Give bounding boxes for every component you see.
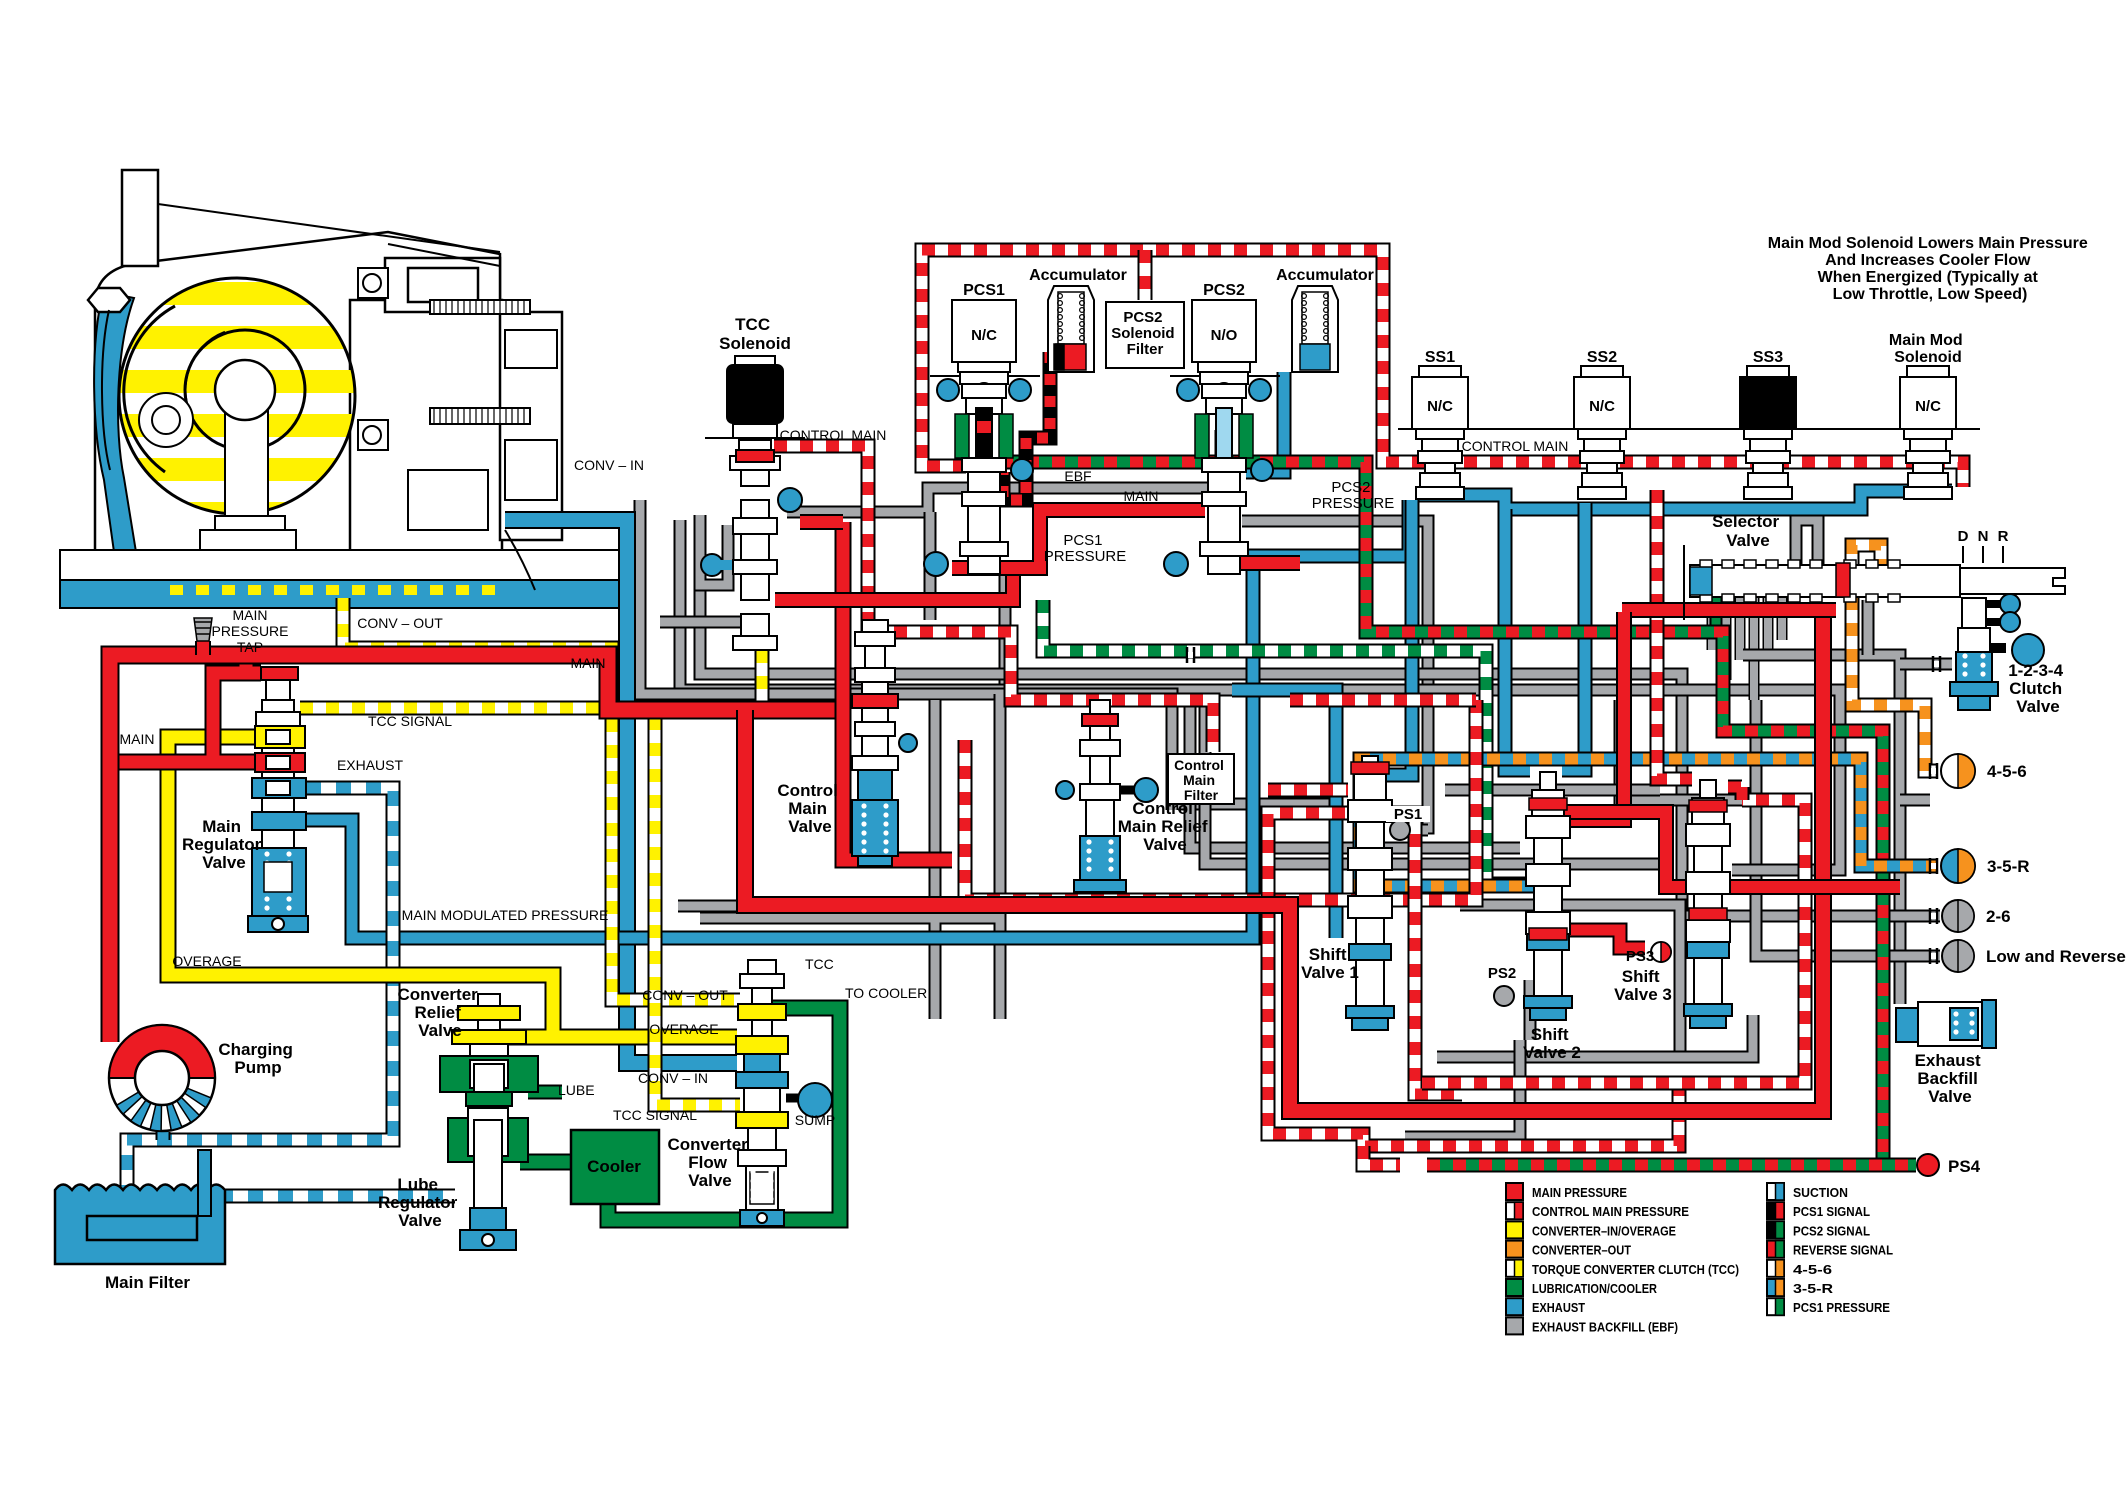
svg-text:CONTROL MAIN: CONTROL MAIN (780, 427, 887, 443)
valve Shift Valve 1 (1346, 756, 1394, 1030)
wire gray low-rev (1756, 700, 1940, 956)
svg-text:SS3: SS3 (1753, 349, 1783, 366)
pump hub left (139, 393, 193, 447)
svg-text:N/C: N/C (971, 327, 997, 344)
wire SS2 down (1562, 503, 1585, 770)
trans inner details (215, 360, 275, 420)
valve converter flow (736, 960, 832, 1226)
legend row EXHAUST BACKFILL (EBF) (1506, 1317, 1523, 1334)
wire gray to clutch valve (1900, 658, 1952, 671)
wire gray sv3 web2 (1732, 700, 1840, 870)
legend row MAIN PRESSURE (1506, 1183, 1523, 1200)
control main filter box (1168, 754, 1234, 804)
wire main to control valve (843, 522, 952, 860)
svg-text:N/C: N/C (1589, 398, 1615, 415)
wire gray sv2 drop (1524, 980, 1537, 1040)
svg-text:OVERAGE: OVERAGE (649, 1021, 718, 1037)
svg-text:TCC SIGNAL: TCC SIGNAL (368, 713, 452, 729)
svg-text:MAIN: MAIN (1124, 488, 1159, 504)
wire sv1 dashed stub (1268, 783, 1348, 798)
solenoid TCC (701, 356, 805, 650)
valve lube regulator (448, 1108, 528, 1250)
svg-text:MAIN PRESSURE: MAIN PRESSURE (1532, 1185, 1627, 1200)
wire gray tcc U (660, 515, 770, 622)
svg-text:1-2-3-4 Clutch Valve: 1-2-3-4 Clutch Valve (2008, 661, 2068, 716)
wire PCS2 pressure gray (1242, 521, 1428, 828)
svg-text:N/C: N/C (1755, 398, 1781, 415)
svg-text:PS2: PS2 (1488, 965, 1516, 982)
svg-text:CONVERTER–OUT: CONVERTER–OUT (1532, 1243, 1631, 1258)
wire gray mid 1 (1178, 798, 1340, 811)
wire reverse signal (1000, 462, 1883, 1165)
wire gray sv3 web1 (1620, 700, 1760, 800)
transmission cross-section housing (95, 170, 562, 552)
svg-text:CONV – OUT: CONV – OUT (642, 987, 728, 1003)
svg-text:PCS2: PCS2 (1203, 282, 1245, 299)
wire gray mid 2 (1190, 694, 1520, 848)
svg-text:TO COOLER: TO COOLER (845, 985, 927, 1001)
wire accumulator2 drop (1246, 372, 1284, 472)
cooler (571, 1130, 659, 1204)
solenoid SS3 (1740, 366, 1796, 499)
svg-text:SS2: SS2 (1587, 349, 1617, 366)
solenoid SS2 (1574, 366, 1630, 499)
wire TCC signal dashed (300, 708, 740, 1105)
legend row EXHAUST (1506, 1298, 1523, 1315)
svg-text:TCC SIGNAL: TCC SIGNAL (613, 1107, 697, 1123)
blue channel left side (94, 292, 136, 552)
valve control main (852, 620, 898, 866)
wire PCS1 pressure line (1043, 600, 1528, 884)
svg-text:EXHAUST: EXHAUST (337, 757, 404, 773)
wire ps loop lower (1363, 1146, 1400, 1165)
wire main branch to loop (745, 612, 1823, 1111)
svg-text:4-5-6: 4-5-6 (1793, 1262, 1832, 1277)
svg-text:N/O: N/O (1211, 327, 1238, 344)
legend row CONTROL MAIN PRESSURE (1506, 1202, 1523, 1219)
wire control main valve loop (868, 632, 1213, 752)
wire selector red rail (1622, 602, 1836, 618)
svg-text:3-5-R: 3-5-R (1987, 857, 2030, 876)
svg-text:CONTROL MAIN PRESSURE: CONTROL MAIN PRESSURE (1532, 1204, 1689, 1219)
svg-text:D: D (1958, 528, 1969, 545)
valve control main relief (1074, 700, 1158, 892)
svg-text:SUMP: SUMP (795, 1112, 835, 1128)
wire exhaust dashed main reg (127, 788, 393, 1188)
legend row SUCTION (1767, 1183, 1784, 1200)
PS3 sensor (1651, 942, 1671, 962)
svg-text:PS1: PS1 (1394, 806, 1422, 823)
wire sv3 dashed drop (1657, 490, 1692, 779)
bottom blue channel (60, 580, 635, 608)
svg-text:2-6: 2-6 (1986, 907, 2011, 926)
wire 4-5-6 selector U (1852, 545, 1881, 580)
wire sv3 small valve out (1728, 787, 1742, 800)
PS2 sensor (1494, 986, 1514, 1006)
svg-text:Shift Valve 2: Shift Valve 2 (1523, 1025, 1581, 1062)
valve Shift Valve 2 (1524, 772, 1572, 1020)
wire gray clutch feed (1868, 600, 1930, 800)
legend row PCS1 PRESSURE (1767, 1298, 1784, 1315)
legend row 4-5-6 (1767, 1260, 1784, 1277)
svg-text:CONVERTER–IN/OVERAGE: CONVERTER–IN/OVERAGE (1532, 1223, 1676, 1238)
wire relief box top (1290, 693, 1476, 708)
clutch LowRev (1942, 940, 1974, 972)
wire shift valve loop inner (1422, 800, 1805, 1083)
valve Shift Valve 3 (1684, 780, 1732, 1028)
svg-text:Cooler: Cooler (587, 1157, 641, 1176)
svg-text:PCS1 SIGNAL: PCS1 SIGNAL (1793, 1204, 1870, 1219)
valve exhaust backfill (1896, 1000, 1996, 1048)
svg-text:Shift Valve 1: Shift Valve 1 (1301, 945, 1359, 982)
main filter tank (55, 1150, 225, 1264)
svg-text:4-5-6: 4-5-6 (1987, 762, 2027, 781)
wire solenoid exhaust rail (1418, 491, 1952, 509)
wire shift valve loop outer (1268, 905, 1679, 1146)
clutch 2-6 (1942, 900, 1974, 932)
wire gray selector U (1796, 520, 1818, 597)
wire tcc valve red stub (775, 522, 1013, 600)
solenoid PCS1 (924, 300, 1040, 576)
svg-text:TAP: TAP (237, 639, 263, 655)
svg-text:Shift Valve 3: Shift Valve 3 (1614, 967, 1672, 1004)
svg-text:PCS1: PCS1 (963, 282, 1005, 299)
wire sv2 red stub (1548, 930, 1645, 948)
svg-text:CONV – IN: CONV – IN (638, 1070, 708, 1086)
svg-text:N/C: N/C (1427, 398, 1453, 415)
legend row REVERSE SIGNAL (1767, 1241, 1784, 1258)
wire EBF rail A (787, 488, 1208, 512)
legend row PCS2 SIGNAL (1767, 1221, 1784, 1238)
svg-text:SUCTION: SUCTION (1793, 1185, 1848, 1200)
svg-text:R: R (1998, 528, 2009, 545)
housing bolts (88, 288, 130, 312)
wire main reg red feeds (110, 655, 261, 762)
wire EBF long rail 3 (640, 500, 1172, 810)
wire main pcs1-pcs2 (952, 510, 1205, 568)
wire shift valve loop top (1268, 813, 1462, 1094)
svg-text:PRESSURE: PRESSURE (211, 623, 288, 639)
svg-text:LUBE: LUBE (558, 1082, 595, 1098)
svg-text:PCS2 SIGNAL: PCS2 SIGNAL (1793, 1223, 1870, 1238)
wire cooler to lube (520, 1154, 575, 1171)
wire EBF pcs verticals (930, 512, 1005, 694)
wire 4-5-6 line (1852, 597, 1938, 771)
svg-text:Accumulator: Accumulator (1276, 267, 1374, 284)
svg-text:CONV – OUT: CONV – OUT (357, 615, 443, 631)
clutch 4-5-6 (1941, 754, 1975, 788)
accumulator 1 (1048, 286, 1094, 372)
wire gray bottom box1 (1437, 1015, 1753, 1057)
wire CONV-IN pipe (505, 520, 737, 1063)
wire lube stub (528, 1085, 562, 1100)
svg-text:EXHAUST BACKFILL (EBF): EXHAUST BACKFILL (EBF) (1532, 1319, 1678, 1334)
wire gray bottom box2 (1405, 1040, 1520, 1137)
svg-text:PCS1 PRESSURE: PCS1 PRESSURE (1793, 1300, 1890, 1315)
charging pump (109, 1025, 215, 1131)
wire PCS2 to EBF drop (1232, 690, 1336, 938)
svg-text:CONV – IN: CONV – IN (574, 457, 644, 473)
wire gray cm area (678, 694, 1000, 1019)
wire selector red drop (1562, 612, 1624, 820)
clutch 3-5-R (1941, 849, 1975, 883)
svg-text:PS3: PS3 (1626, 948, 1654, 965)
PS4 sensor (1917, 1154, 1939, 1176)
svg-text:N/C: N/C (742, 387, 768, 404)
legend row CONVERTER–IN/OVERAGE (1506, 1221, 1523, 1238)
svg-text:Main Filter: Main Filter (105, 1273, 190, 1292)
svg-text:MAIN: MAIN (233, 607, 268, 623)
wire suction filter to lube (218, 1189, 455, 1204)
wire cooler loop (608, 1008, 840, 1220)
svg-text:EBF: EBF (1064, 468, 1091, 484)
wire SS2b down (1505, 509, 1530, 770)
svg-text:EXHAUST: EXHAUST (1532, 1300, 1585, 1315)
selector valve (1684, 545, 2065, 620)
wire overage yellow (168, 737, 737, 1037)
wire control main box top (922, 250, 1963, 487)
bottom yellow dashed channel (170, 585, 505, 595)
wire gray sv webs (1445, 790, 1680, 1057)
svg-text:OVERAGE: OVERAGE (172, 953, 241, 969)
svg-text:PS4: PS4 (1948, 1157, 1981, 1176)
wire gray sv1 right (1400, 824, 1428, 837)
valve 1-2-3-4 clutch (1950, 594, 2044, 710)
svg-text:Accumulator: Accumulator (1029, 267, 1127, 284)
wire relief valve loop (965, 700, 1476, 900)
wire control main from TCC (774, 446, 868, 632)
wire gray rail to EBV (1743, 655, 1900, 1004)
svg-text:N: N (1978, 528, 1989, 545)
legend row PCS1 SIGNAL (1767, 1202, 1784, 1219)
svg-text:MAIN MODULATED PRESSURE: MAIN MODULATED PRESSURE (402, 907, 609, 923)
svg-text:TCC: TCC (805, 956, 834, 972)
accumulator 2 (1292, 286, 1338, 372)
wire TCC solenoid drop (755, 560, 770, 708)
wire reverse signal to PS4 (1427, 1158, 1916, 1173)
wire main pressure trunk (110, 655, 843, 1042)
svg-text:MAIN: MAIN (120, 731, 155, 747)
legend row 3-5-R (1767, 1279, 1784, 1296)
wire pump suction arc (156, 1132, 171, 1140)
wire TCC conv-out dashed (343, 598, 740, 1000)
legend row LUBRICATION/COOLER (1506, 1279, 1523, 1296)
wire main pressure tap stub (195, 641, 211, 655)
orifice ticks (1930, 763, 1937, 779)
wire gray selector drops (1712, 597, 1782, 700)
svg-text:REVERSE SIGNAL: REVERSE SIGNAL (1793, 1243, 1893, 1258)
svg-text:MAIN: MAIN (571, 655, 606, 671)
baseplate (60, 550, 620, 580)
wire sv3 red feed (1560, 812, 1900, 887)
svg-text:TORQUE CONVERTER CLUTCH (TCC: TORQUE CONVERTER CLUTCH (TCC) (1532, 1262, 1739, 1277)
wire selector green stub (1710, 597, 1723, 632)
solenoid SS1 (1412, 366, 1468, 499)
PS1 sensor (1390, 820, 1410, 840)
wire 3-5-R line (1360, 759, 1938, 886)
legend row TORQUE CONVERTER CLUTCH (TCC) (1506, 1260, 1523, 1277)
wire pcs2 right red (1240, 555, 1300, 571)
wire gray 2-6 (1682, 760, 1940, 916)
wire PCS1 signal black (1003, 352, 1050, 500)
valve converter relief (440, 994, 538, 1112)
valve main regulator (248, 667, 308, 932)
wire control main box mid (1138, 250, 1153, 300)
stator shaft (225, 390, 268, 516)
svg-text:CONTROL MAIN: CONTROL MAIN (1462, 438, 1569, 454)
svg-text:LUBRICATION/COOLER: LUBRICATION/COOLER (1532, 1281, 1658, 1296)
svg-text:Main Mod Solenoid: Main Mod Solenoid (1889, 332, 1967, 366)
legend row CONVERTER–OUT (1506, 1241, 1523, 1258)
solenoid PCS2 (1164, 300, 1280, 576)
wire MAIN MODULATED PRESSURE (306, 500, 1409, 938)
svg-text:N/C: N/C (1915, 398, 1941, 415)
svg-text:3-5-R: 3-5-R (1793, 1281, 1834, 1296)
wire PCS2 signal black (1215, 430, 1230, 470)
svg-text:SS1: SS1 (1425, 349, 1455, 366)
wire EBF long rail 2 (680, 520, 1840, 700)
wire gray mid 3 (1205, 694, 1672, 864)
solenoid MainMod (1900, 366, 1956, 499)
PCS2 solenoid filter box (1106, 302, 1184, 368)
svg-text:Low and Reverse: Low and Reverse (1986, 947, 2126, 966)
wire SS1 to shift valve 1 (1382, 500, 1412, 775)
wire EBF long rail 1 (700, 590, 1682, 760)
